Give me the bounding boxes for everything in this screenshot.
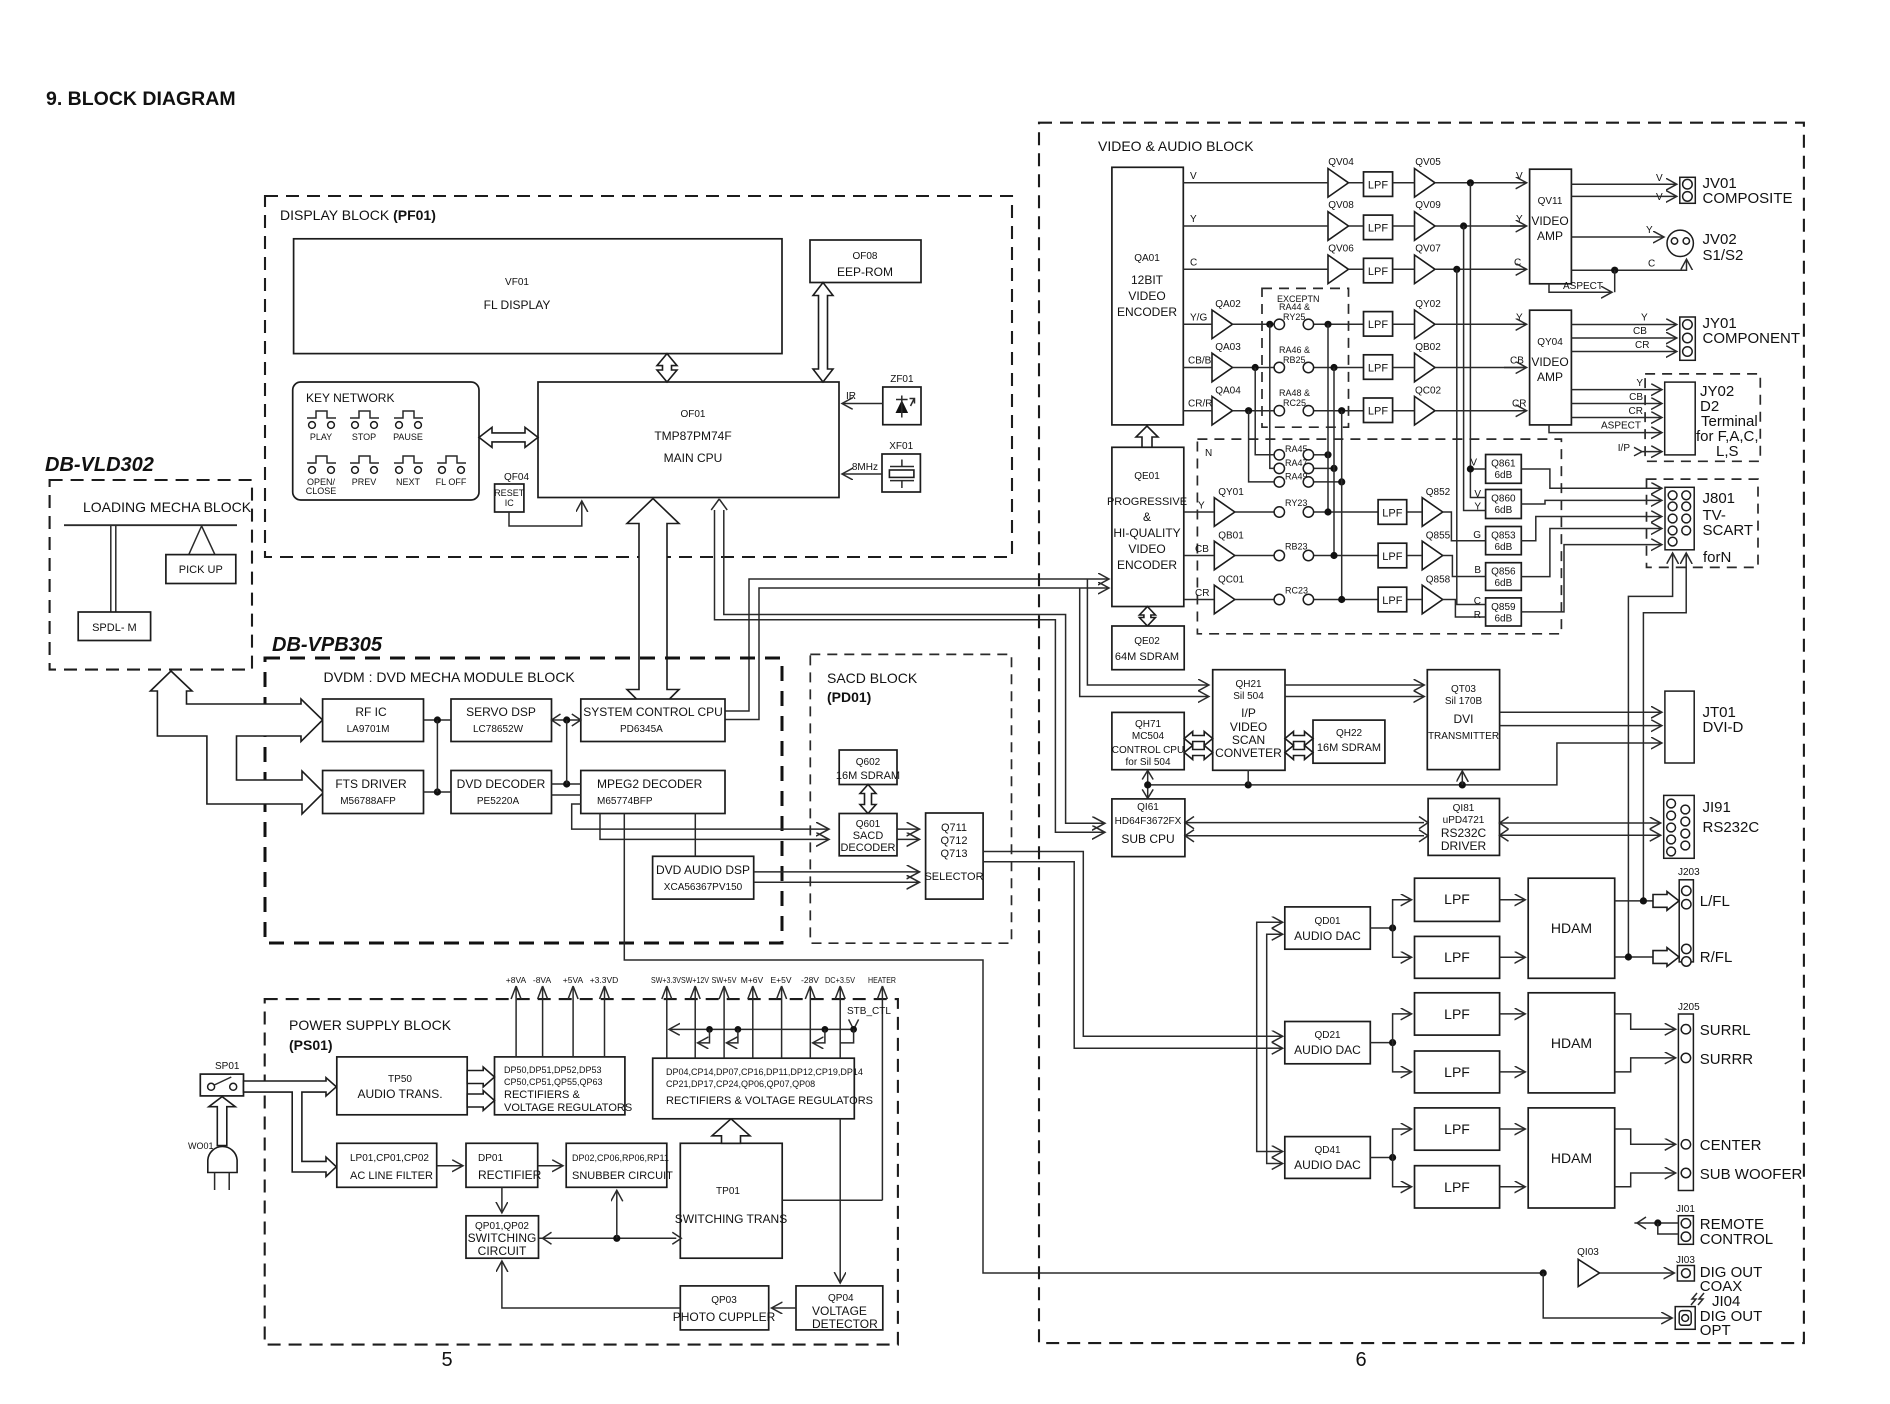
svg-text:IR: IR xyxy=(846,391,856,402)
svg-text:Q853: Q853 xyxy=(1491,531,1516,542)
FTS driver box xyxy=(323,771,424,814)
LPF center xyxy=(1415,1108,1500,1150)
svg-text:Y: Y xyxy=(1190,214,1197,225)
connector JV01 composite xyxy=(1680,175,1793,207)
DVI transmitter QT03 xyxy=(1427,670,1499,770)
svg-text:Q859: Q859 xyxy=(1491,602,1516,613)
power rail DC+3.5V xyxy=(825,975,855,1058)
amp Q858 xyxy=(1407,575,1451,614)
wire to JI04 xyxy=(1543,1273,1671,1318)
svg-text:CB: CB xyxy=(1629,392,1643,403)
amp QI03 xyxy=(1577,1247,1599,1287)
svg-text:LPF: LPF xyxy=(1444,1179,1470,1195)
svg-text:Q601: Q601 xyxy=(856,819,881,830)
power rail +3.3VD xyxy=(590,975,619,1057)
svg-text:V: V xyxy=(1190,171,1197,182)
connector JY01 component xyxy=(1680,315,1800,360)
svg-text:DP01: DP01 xyxy=(478,1153,503,1164)
sub CPU QI61 xyxy=(1112,799,1185,857)
svg-text:LPF: LPF xyxy=(1444,891,1470,907)
svg-text:QC01: QC01 xyxy=(1218,575,1245,586)
svg-text:C: C xyxy=(1474,596,1481,607)
svg-text:ZF01: ZF01 xyxy=(890,374,914,385)
svg-text:C: C xyxy=(1514,258,1521,269)
svg-text:SWITCHING: SWITCHING xyxy=(468,1231,537,1245)
svg-text:QA03: QA03 xyxy=(1215,342,1241,353)
svg-text:VIDEO: VIDEO xyxy=(1128,289,1165,303)
svg-text:HI-QUALITY: HI-QUALITY xyxy=(1113,526,1180,540)
svg-text:QV05: QV05 xyxy=(1415,157,1441,168)
wires sub CPU to RS232C driver xyxy=(1185,817,1428,842)
svg-text:SW+5V: SW+5V xyxy=(712,975,737,985)
svg-text:-8VA: -8VA xyxy=(533,975,552,985)
wire MPEG2 to DVD audio DSP xyxy=(694,814,696,857)
svg-text:QV11: QV11 xyxy=(1538,196,1563,207)
svg-text:RA48 &: RA48 & xyxy=(1279,388,1310,398)
TV-SCART J801 dashed box xyxy=(1647,479,1759,567)
wires QD01 to LPFs xyxy=(1370,900,1524,958)
wire AC filter to rectifier xyxy=(437,1165,462,1167)
key NEXT xyxy=(394,456,423,473)
svg-text:ENCODER: ENCODER xyxy=(1117,305,1177,319)
svg-text:LP01,CP01,CP02: LP01,CP01,CP02 xyxy=(350,1153,429,1164)
video amp QY04 xyxy=(1530,310,1572,425)
wire audio left to J801 xyxy=(1643,554,1686,901)
SPDL-M box xyxy=(78,612,150,641)
svg-text:JI01: JI01 xyxy=(1676,1204,1695,1215)
svg-text:HDAM: HDAM xyxy=(1551,920,1592,936)
LPF progressive CB xyxy=(1378,543,1407,568)
svg-text:XF01: XF01 xyxy=(889,441,913,452)
SACD decoder Q601 xyxy=(839,814,897,856)
svg-text:SW+3.3V: SW+3.3V xyxy=(651,975,681,985)
svg-text:COMPOSITE: COMPOSITE xyxy=(1703,190,1793,207)
wire junction column xyxy=(436,720,438,792)
svg-text:V: V xyxy=(1656,192,1663,203)
svg-text:HEATER: HEATER xyxy=(868,975,896,985)
JY02 connector body xyxy=(1665,382,1696,455)
wire QI03 to JI03 xyxy=(1600,1272,1674,1274)
svg-text:PHOTO CUPPLER: PHOTO CUPPLER xyxy=(673,1310,776,1324)
svg-text:SCAN: SCAN xyxy=(1232,733,1265,747)
rectifiers and voltage regulators left box xyxy=(495,1057,633,1115)
svg-text:DB-VPB305: DB-VPB305 xyxy=(272,634,383,656)
wires QI81 to JI91 xyxy=(1500,817,1660,841)
svg-text:PICK UP: PICK UP xyxy=(179,564,223,576)
wire DC3.5V to voltage detector xyxy=(839,1119,841,1282)
svg-text:Q858: Q858 xyxy=(1426,575,1451,586)
svg-text:LPF: LPF xyxy=(1368,406,1388,418)
jumper RA44/RY25 row Y/G xyxy=(1183,313,1363,330)
svg-text:ASPECT: ASPECT xyxy=(1563,281,1603,292)
wires to QH21 scan converter xyxy=(1080,579,1208,697)
wire Q853 to J801 xyxy=(1521,517,1661,541)
hollow arrows audio trans to rectifiers xyxy=(467,1067,494,1087)
wire reset to CPU xyxy=(509,502,582,526)
svg-text:CENTER: CENTER xyxy=(1700,1137,1762,1154)
wire servo to system CPU double arrow xyxy=(552,714,581,726)
power rail E+5V xyxy=(770,975,791,1058)
svg-text:LPF: LPF xyxy=(1368,319,1388,331)
svg-text:Q602: Q602 xyxy=(856,757,881,768)
svg-text:LPF: LPF xyxy=(1444,1064,1470,1080)
amp QV06 xyxy=(1328,244,1354,284)
svg-text:AUDIO TRANS.: AUDIO TRANS. xyxy=(357,1087,442,1101)
svg-text:WO01: WO01 xyxy=(188,1141,214,1151)
LPF Y xyxy=(1364,215,1393,240)
svg-text:uPD4721: uPD4721 xyxy=(1443,815,1485,826)
power rail SW+5V xyxy=(712,975,737,1058)
svg-text:C: C xyxy=(1648,259,1655,270)
wires system CPU to QE01 progressive encoder xyxy=(725,579,1108,720)
svg-text:MC504: MC504 xyxy=(1132,731,1165,742)
svg-text:SACD BLOCK: SACD BLOCK xyxy=(827,670,918,686)
svg-text:J801: J801 xyxy=(1703,490,1736,507)
JI01 remote connector xyxy=(1676,1204,1773,1248)
svg-text:Y: Y xyxy=(1474,502,1481,513)
JI04 connector xyxy=(1675,1293,1762,1339)
control CPU QH71 xyxy=(1112,712,1184,769)
EEP-ROM OF08 xyxy=(810,240,921,283)
svg-text:LPF: LPF xyxy=(1444,1006,1470,1022)
svg-text:OPT: OPT xyxy=(1700,1322,1731,1339)
svg-text:CONVETER: CONVETER xyxy=(1215,746,1282,760)
wire DVD audio DSP to selector xyxy=(754,872,919,882)
amp QY01 xyxy=(1184,487,1244,526)
svg-text:SPDL- M: SPDL- M xyxy=(92,622,137,634)
svg-text:QH21: QH21 xyxy=(1235,679,1262,690)
svg-text:AUDIO DAC: AUDIO DAC xyxy=(1294,1158,1361,1172)
wire voltage detector to photo coupler xyxy=(773,1307,797,1309)
key PREV xyxy=(350,456,379,473)
reset IC QF04 xyxy=(494,472,529,512)
svg-text:CLOSE: CLOSE xyxy=(306,486,337,496)
svg-text:QD01: QD01 xyxy=(1314,916,1341,927)
svg-text:LPF: LPF xyxy=(1382,551,1402,563)
svg-text:64M SDRAM: 64M SDRAM xyxy=(1115,651,1179,663)
amp QV09 xyxy=(1415,200,1442,240)
wires QY04 to JY01 xyxy=(1571,313,1675,352)
svg-text:DISPLAY BLOCK (PF01): DISPLAY BLOCK (PF01) xyxy=(280,207,436,223)
svg-text:AMP: AMP xyxy=(1537,229,1563,243)
wire IR xyxy=(843,391,883,404)
display block PF01 dashed border xyxy=(265,196,1012,557)
exceptn dashed box xyxy=(1262,288,1349,427)
LPF C xyxy=(1364,258,1393,283)
svg-text:AC LINE FILTER: AC LINE FILTER xyxy=(350,1170,433,1182)
hollow arrows QH71 to QH21 xyxy=(1184,732,1213,746)
svg-text:SURRL: SURRL xyxy=(1700,1022,1751,1039)
switching trans box TP01 xyxy=(675,1143,787,1258)
svg-text:DVI: DVI xyxy=(1453,712,1473,726)
svg-text:VF01: VF01 xyxy=(505,277,529,288)
svg-text:V: V xyxy=(1516,171,1523,182)
svg-text:QE01: QE01 xyxy=(1134,471,1160,482)
wire selector to audio DAC bus xyxy=(983,852,1282,1164)
wire audio right to J801 xyxy=(1628,554,1672,957)
svg-text:TMP87PM74F: TMP87PM74F xyxy=(654,429,731,443)
svg-text:MPEG2 DECODER: MPEG2 DECODER xyxy=(597,777,703,791)
svg-text:QD21: QD21 xyxy=(1314,1030,1341,1041)
audio DAC QD01 xyxy=(1285,907,1371,949)
wires HDAM to J205 xyxy=(1615,1014,1675,1187)
jumper RA49 xyxy=(1249,411,1346,487)
svg-text:+8VA: +8VA xyxy=(506,975,527,985)
hollow arrow FL display to CPU xyxy=(657,354,677,382)
svg-text:Y: Y xyxy=(1641,313,1648,324)
hollow arrow switch to audio trans and AC line filter xyxy=(244,1078,337,1177)
wire snubber to junction xyxy=(616,1191,618,1238)
svg-text:RB23: RB23 xyxy=(1285,542,1308,552)
svg-text:C: C xyxy=(1190,258,1197,269)
svg-text:M65774BFP: M65774BFP xyxy=(597,796,653,807)
svg-text:TP01: TP01 xyxy=(716,1186,740,1197)
svg-text:Q852: Q852 xyxy=(1426,487,1451,498)
svg-text:M+6V: M+6V xyxy=(741,975,764,985)
svg-text:R: R xyxy=(1474,610,1481,621)
wire Y row xyxy=(1183,214,1525,230)
svg-text:CR: CR xyxy=(1512,399,1526,410)
svg-text:V: V xyxy=(1656,173,1663,184)
svg-text:Sil 170B: Sil 170B xyxy=(1445,696,1483,707)
svg-text:Q855: Q855 xyxy=(1426,531,1451,542)
svg-text:Y/G: Y/G xyxy=(1190,313,1207,324)
6dB amp Q856 xyxy=(1486,563,1522,591)
hollow fork arrow mecha to RF IC and FTS driver xyxy=(150,671,323,814)
svg-text:CONTROL: CONTROL xyxy=(1700,1231,1773,1248)
svg-text:DP04,CP14,DP07,CP16,DP11,DP12,: DP04,CP14,DP07,CP16,DP11,DP12,CP19,DP14 xyxy=(666,1067,863,1077)
MPEG2 decoder box xyxy=(581,771,725,814)
power rail M+6V xyxy=(741,975,764,1058)
HDAM front xyxy=(1528,878,1615,978)
jumper RC23 xyxy=(1235,586,1378,605)
RS232C connector JI91 xyxy=(1664,795,1760,858)
hollow arrow plug to switch xyxy=(209,1097,236,1146)
wires to JY02 xyxy=(1549,378,1661,456)
servo DSP box xyxy=(451,699,552,742)
svg-text:QP03: QP03 xyxy=(711,1295,737,1306)
svg-text:16M SDRAM: 16M SDRAM xyxy=(1317,742,1381,754)
6dB amp Q860 xyxy=(1486,490,1522,519)
svg-text:LPF: LPF xyxy=(1382,507,1402,519)
svg-text:CB: CB xyxy=(1195,544,1209,555)
hollow arrows QH21 to QH22 xyxy=(1285,732,1313,746)
wire HDAM to J203 R xyxy=(1615,948,1679,967)
J203 connector xyxy=(1678,867,1732,966)
switching circuit box QP01 xyxy=(466,1216,539,1258)
svg-text:SNUBBER CIRCUIT: SNUBBER CIRCUIT xyxy=(572,1170,673,1182)
svg-text:OF01: OF01 xyxy=(680,409,705,420)
wire C vertical to Q859 xyxy=(1457,269,1486,607)
svg-text:CR: CR xyxy=(1195,588,1209,599)
svg-text:JI03: JI03 xyxy=(1676,1255,1695,1266)
svg-text:QV06: QV06 xyxy=(1328,244,1354,255)
svg-text:QI81: QI81 xyxy=(1453,803,1475,814)
svg-text:DVD AUDIO DSP: DVD AUDIO DSP xyxy=(656,863,750,877)
svg-text:RY25: RY25 xyxy=(1283,312,1305,322)
svg-text:(PD01): (PD01) xyxy=(827,689,871,705)
svg-text:9. BLOCK DIAGRAM: 9. BLOCK DIAGRAM xyxy=(46,88,236,110)
svg-text:QA01: QA01 xyxy=(1134,253,1160,264)
SACD block dashed xyxy=(810,654,1011,943)
wire HDAM to J203 L xyxy=(1615,892,1679,911)
LPF V xyxy=(1364,172,1393,197)
main CPU OF01 xyxy=(538,382,839,498)
svg-text:Y: Y xyxy=(1516,313,1523,324)
svg-text:LPF: LPF xyxy=(1382,595,1402,607)
N dashed box xyxy=(1197,439,1561,634)
key FL OFF xyxy=(437,456,466,473)
6dB amp Q861 xyxy=(1486,455,1522,484)
svg-text:QB02: QB02 xyxy=(1415,342,1441,353)
loading mecha block dashed xyxy=(50,480,252,670)
svg-text:DVI-D: DVI-D xyxy=(1703,719,1744,736)
svg-text:5: 5 xyxy=(441,1349,452,1371)
svg-text:Q856: Q856 xyxy=(1491,567,1516,578)
svg-text:CONTROL CPU: CONTROL CPU xyxy=(1112,745,1184,756)
svg-text:M56788AFP: M56788AFP xyxy=(340,796,396,807)
svg-text:SACD: SACD xyxy=(853,830,884,842)
svg-text:DECODER: DECODER xyxy=(840,842,895,854)
svg-text:LA9701M: LA9701M xyxy=(347,724,390,735)
svg-text:COMPONENT: COMPONENT xyxy=(1703,330,1801,347)
svg-text:B: B xyxy=(1474,565,1481,576)
video and audio block dashed xyxy=(1039,123,1804,1343)
AC line filter box xyxy=(337,1143,437,1187)
selector box Q711 xyxy=(924,813,983,899)
SDRAM QH22 xyxy=(1313,720,1385,763)
svg-text:DVD DECODER: DVD DECODER xyxy=(457,777,546,791)
FL display VF01 xyxy=(294,239,782,354)
svg-text:CP50,CP51,QP55,QP63: CP50,CP51,QP55,QP63 xyxy=(504,1077,603,1087)
amp QA03 xyxy=(1212,342,1241,382)
svg-text:PREV: PREV xyxy=(352,477,377,487)
wires QD21 to LPFs xyxy=(1370,1014,1524,1072)
wire switching circuit to switching trans xyxy=(539,1232,682,1244)
amp QY02 xyxy=(1415,299,1442,339)
amp QB02 xyxy=(1415,342,1442,382)
svg-text:RA44 &: RA44 & xyxy=(1279,302,1310,312)
svg-text:HDAM: HDAM xyxy=(1551,1150,1592,1166)
wire Q852 to Q853 G xyxy=(1443,512,1486,541)
wire MPEG2 to digital out xyxy=(624,814,1543,1274)
power rail -28V xyxy=(801,975,819,1058)
jumper RA46/RB25 row CB/B xyxy=(1183,345,1363,373)
svg-text:SYSTEM CONTROL CPU: SYSTEM CONTROL CPU xyxy=(583,705,723,719)
DVD audio DSP box xyxy=(653,856,754,899)
svg-text:PAUSE: PAUSE xyxy=(393,432,423,442)
svg-text:Q711: Q711 xyxy=(941,822,967,834)
J801 connector body xyxy=(1665,487,1694,550)
svg-text:QH22: QH22 xyxy=(1336,728,1363,739)
svg-text:L/FL: L/FL xyxy=(1700,893,1730,910)
DVD decoder box xyxy=(451,771,552,814)
jumper RB23 xyxy=(1235,542,1378,561)
svg-text:QD41: QD41 xyxy=(1314,1145,1341,1156)
power rail SW+12V xyxy=(681,975,709,1058)
svg-text:ENCODER: ENCODER xyxy=(1117,558,1177,572)
wire rectifier to snubber xyxy=(538,1165,562,1167)
svg-text:N: N xyxy=(1205,448,1212,459)
svg-text:HD64F3672FX: HD64F3672FX xyxy=(1115,816,1182,827)
wire heater from switching trans xyxy=(782,1199,882,1201)
svg-text:QA02: QA02 xyxy=(1215,299,1241,310)
svg-text:PD6345A: PD6345A xyxy=(620,724,663,735)
big hollow arrow CPU to system control CPU xyxy=(627,499,679,716)
wire photo coupler to switching circuit xyxy=(502,1262,680,1308)
plug WO01 xyxy=(188,1141,237,1190)
svg-text:VIDEO: VIDEO xyxy=(1531,214,1568,228)
hollow arrow switching trans to rectifiers right xyxy=(712,1119,750,1144)
svg-text:-28V: -28V xyxy=(801,975,819,985)
amp QB01 xyxy=(1184,531,1244,570)
amp QV04 xyxy=(1328,157,1354,197)
svg-text:Y: Y xyxy=(1646,225,1653,236)
LPF component Y xyxy=(1364,312,1393,337)
pick up triangle xyxy=(189,526,215,555)
LPF subwoofer xyxy=(1415,1166,1500,1208)
svg-text:RS232C: RS232C xyxy=(1703,819,1760,836)
JI03 connector xyxy=(1676,1255,1762,1295)
wires QT03 to JT01 xyxy=(1500,712,1661,725)
svg-text:+3.3VD: +3.3VD xyxy=(590,975,619,985)
junction digital out xyxy=(1540,1269,1547,1276)
svg-text:SCART: SCART xyxy=(1703,522,1754,539)
svg-text:QY02: QY02 xyxy=(1415,299,1441,310)
svg-text:FL OFF: FL OFF xyxy=(436,477,467,487)
svg-text:SP01: SP01 xyxy=(215,1061,240,1072)
amp Q852 xyxy=(1407,487,1451,526)
svg-text:QF04: QF04 xyxy=(504,472,529,483)
svg-text:CB/B: CB/B xyxy=(1188,356,1212,367)
video amp QV11 xyxy=(1530,169,1572,284)
snubber circuit box xyxy=(566,1143,673,1187)
svg-text:J205: J205 xyxy=(1678,1002,1700,1013)
svg-text:JI91: JI91 xyxy=(1703,799,1731,816)
thin double wire CPU to sub CPU risers xyxy=(711,499,1104,832)
amp QC02 xyxy=(1415,386,1442,426)
LPF front L xyxy=(1415,878,1500,921)
wire remote control xyxy=(1634,1217,1678,1234)
svg-text:QV09: QV09 xyxy=(1415,200,1441,211)
12bit video encoder QA01 xyxy=(1112,167,1183,425)
wires QV11 to JV01 xyxy=(1571,173,1675,203)
svg-text:LOADING MECHA BLOCK: LOADING MECHA BLOCK xyxy=(83,499,252,515)
svg-text:QI61: QI61 xyxy=(1137,802,1159,813)
svg-text:LPF: LPF xyxy=(1444,949,1470,965)
svg-text:6dB: 6dB xyxy=(1495,578,1513,589)
svg-text:6dB: 6dB xyxy=(1495,505,1513,516)
svg-text:RECTIFIER: RECTIFIER xyxy=(478,1168,542,1182)
svg-text:SW+12V: SW+12V xyxy=(681,975,709,985)
svg-text:PROGRESSIVE: PROGRESSIVE xyxy=(1107,496,1187,508)
wire DVD decoder to MPEG2 xyxy=(552,720,581,795)
LPF front R xyxy=(1415,936,1500,978)
wire C row xyxy=(1183,258,1525,273)
photo coupler box QP03 xyxy=(673,1286,776,1330)
svg-text:16M SDRAM: 16M SDRAM xyxy=(836,770,900,782)
key STOP xyxy=(350,411,379,428)
HDAM surround xyxy=(1528,993,1615,1093)
svg-text:DVDM : DVD MECHA MODULE BLOCK: DVDM : DVD MECHA MODULE BLOCK xyxy=(324,669,576,685)
DVDM dashed block xyxy=(265,658,782,943)
svg-text:SERVO DSP: SERVO DSP xyxy=(466,705,536,719)
svg-text:HDAM: HDAM xyxy=(1551,1035,1592,1051)
power rail +8VA xyxy=(506,975,527,1057)
svg-text:LPF: LPF xyxy=(1368,180,1388,192)
svg-text:6dB: 6dB xyxy=(1495,542,1513,553)
HDAM center xyxy=(1528,1108,1615,1208)
